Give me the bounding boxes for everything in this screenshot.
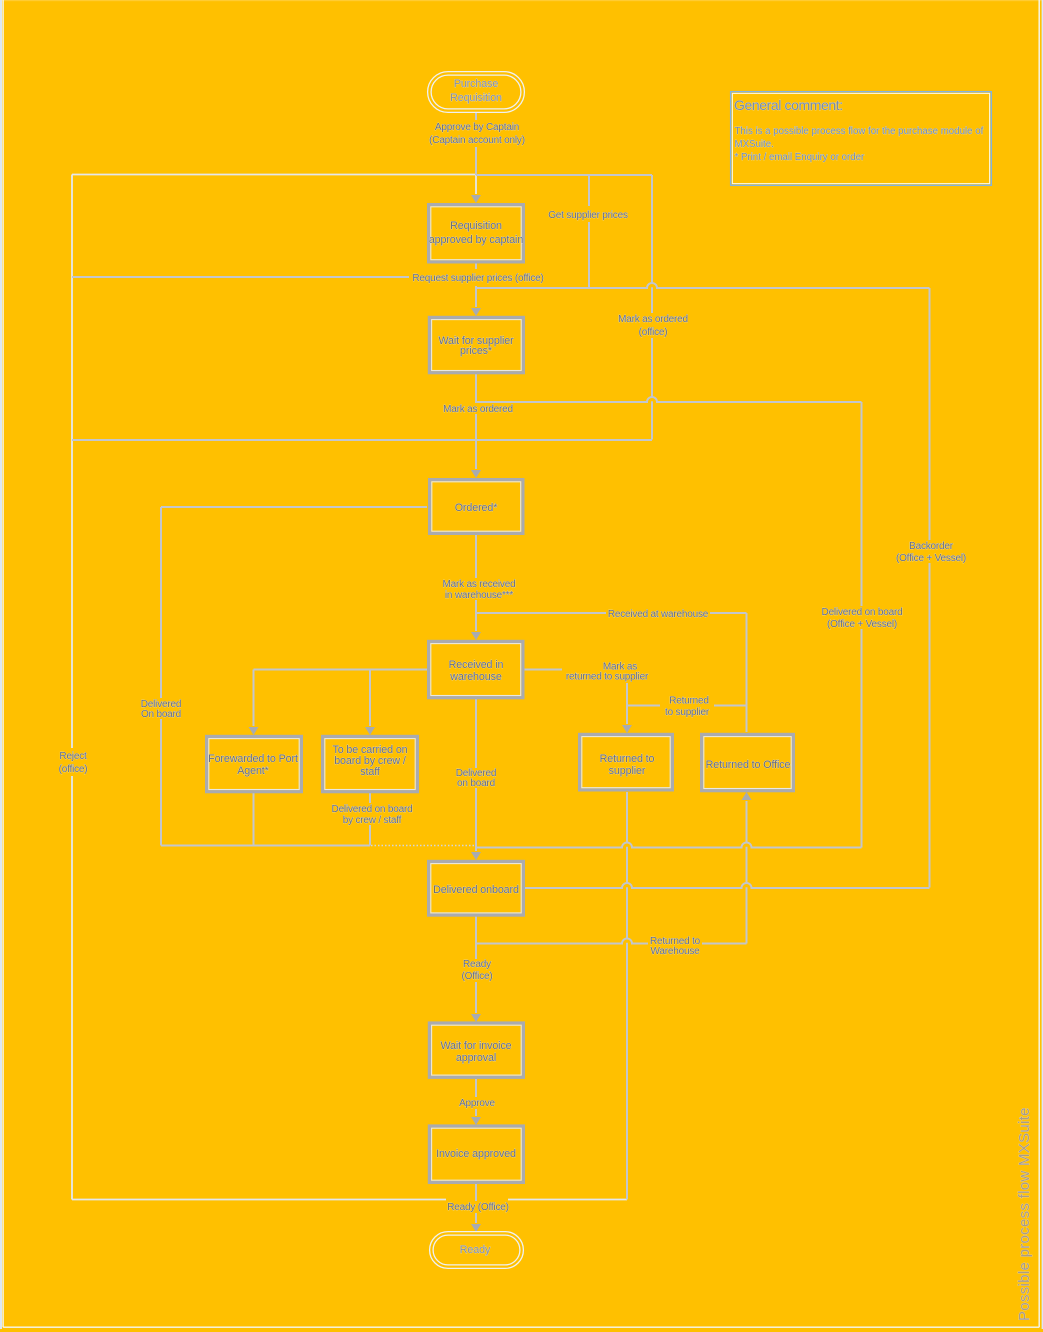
svg-text:in warehouse***: in warehouse***	[445, 590, 513, 601]
wire delivered-on-board-left vertical x=161	[160, 507, 162, 846]
svg-text:(Office + Vessel): (Office + Vessel)	[896, 553, 966, 564]
svg-text:Delivered on board: Delivered on board	[332, 804, 413, 815]
box invoice-approved	[429, 1126, 523, 1182]
wire delivered-on-board-office vertical x=862	[861, 402, 863, 848]
wire delivered-collect horizontal y=846 right with hops	[477, 843, 862, 848]
svg-text:(Office + Vessel): (Office + Vessel)	[827, 619, 897, 630]
svg-text:Get supplier prices: Get supplier prices	[548, 210, 628, 221]
wire mark-as-ordered-office vertical x=652	[651, 175, 653, 440]
svg-text:Forewarded to Port: Forewarded to Port	[208, 753, 298, 765]
svg-text:Warehouse: Warehouse	[651, 946, 701, 957]
hop mask at 747,888	[741, 882, 751, 887]
wire mark-as-ordered branch horizontal y=402 with hop at 652	[476, 397, 862, 402]
arrow into delivered-onboard	[471, 852, 481, 860]
svg-text:Mark as received: Mark as received	[443, 579, 516, 590]
hop mask at 627,888	[622, 882, 632, 887]
svg-text:on board: on board	[457, 778, 495, 789]
comment text	[734, 97, 984, 163]
svg-text:Approve: Approve	[459, 1098, 495, 1109]
svg-text:to supplier: to supplier	[665, 707, 710, 718]
svg-text:by crew / staff: by crew / staff	[343, 815, 402, 826]
stadium purchase-requisition	[428, 72, 525, 113]
svg-text:Approve by Captain: Approve by Captain	[435, 122, 519, 133]
text purchase-requisition	[450, 78, 502, 104]
hop mask at 627,943.5	[622, 938, 632, 943]
wire mark-returned-supplier horizontal y=669.5	[524, 669, 562, 671]
svg-text:Request supplier prices (offic: Request supplier prices (office)	[412, 273, 543, 284]
box wait-for-supplier-prices	[429, 317, 523, 372]
svg-text:Delivered on board: Delivered on board	[822, 607, 903, 618]
wire backorder horizontal y=288 with hop at 652	[477, 283, 930, 288]
wire ordered-left horizontal y=507	[161, 506, 427, 508]
svg-text:(Captain account only): (Captain account only)	[429, 135, 525, 146]
box ordered	[430, 480, 523, 534]
wire request-supplier-prices horizontal y=277	[72, 276, 409, 278]
wire requisition-to-wait vertical x=476	[475, 263, 477, 307]
wire top loop horizontal y=175 right part	[476, 174, 652, 176]
svg-text:Backorder: Backorder	[909, 541, 954, 552]
svg-text:Reject: Reject	[59, 751, 87, 762]
arrow into ready	[471, 1224, 481, 1232]
wire returned-to-supplier branch horizontal y=705.5	[627, 705, 747, 707]
arrow into ordered	[471, 470, 481, 478]
svg-text:Requisition: Requisition	[450, 92, 502, 104]
arrow into received-in-warehouse	[471, 632, 481, 640]
svg-text:On board: On board	[141, 709, 181, 720]
svg-text:Invoice approved: Invoice approved	[436, 1148, 516, 1160]
wire delivered-to-wait-invoice vertical x=476	[475, 917, 477, 1014]
svg-text:(Office): (Office)	[462, 971, 493, 982]
wire returned-supplier vertical x=627	[626, 683, 628, 724]
comment general-comment box	[731, 92, 992, 186]
svg-text:warehouse: warehouse	[449, 671, 502, 683]
text general-comment-body	[735, 126, 984, 163]
svg-text:Received in: Received in	[449, 659, 504, 671]
stadium ready-end	[430, 1232, 524, 1269]
svg-text:* Print / email Enquiry or ord: * Print / email Enquiry or order	[735, 152, 866, 163]
wire loop down into arrow x=476	[475, 175, 477, 195]
svg-text:Returned to Office: Returned to Office	[706, 759, 791, 771]
wire to-port-agent vertical x=253.5	[253, 670, 255, 727]
svg-text:Ready: Ready	[460, 1244, 491, 1256]
wire received-to-delivered vertical x=476	[475, 699, 477, 851]
wire invoice-to-ready vertical x=476	[475, 1184, 477, 1224]
wire returned-supplier-down vertical x=627	[626, 792, 628, 1200]
wire received-left horizontal y=669	[254, 669, 428, 671]
wire to-carried vertical x=370	[369, 670, 371, 727]
wire backorder-into-delivered horizontal y=888 with hops	[525, 883, 930, 888]
box returned-to-office	[702, 734, 794, 790]
wire get-supplier-prices vertical x=589	[588, 175, 590, 288]
wire delivered-collect horizontal y=846 left	[161, 845, 370, 847]
svg-text:Ready (Office): Ready (Office)	[447, 1202, 508, 1213]
wire dashed crew-staff to delivered y=846	[371, 845, 474, 847]
wire ordered-to-received vertical x=476	[475, 535, 477, 631]
box delivered-onboard	[429, 861, 524, 915]
svg-text:Returned: Returned	[669, 696, 709, 707]
svg-text:Delivered onboard: Delivered onboard	[433, 884, 519, 896]
svg-text:Wait for invoice: Wait for invoice	[440, 1040, 511, 1052]
box wait-for-invoice-approval	[429, 1023, 523, 1077]
svg-text:Returned to: Returned to	[600, 753, 655, 765]
svg-text:Requisition: Requisition	[450, 220, 502, 232]
box to-be-carried-on-board	[323, 736, 418, 791]
svg-text:General comment:: General comment:	[734, 97, 843, 113]
svg-text:prices*: prices*	[460, 345, 492, 357]
svg-text:returned to supplier: returned to supplier	[566, 672, 649, 683]
wire wait-to-ordered vertical x=476	[475, 374, 477, 469]
svg-text:Ordered*: Ordered*	[455, 502, 498, 514]
hop mask at 652,288	[647, 282, 657, 287]
wire returned-office-top vertical x=747	[746, 613, 748, 732]
svg-text:Possible process flow MXSuite: Possible process flow MXSuite	[1016, 1107, 1033, 1321]
arrow into requisition-approved	[471, 195, 481, 203]
svg-text:Agent*: Agent*	[237, 765, 269, 777]
wire start-to-requisition vertical x=476	[475, 113, 477, 175]
hop mask at 652,402	[647, 396, 657, 401]
wire ready-office horizontal y=1200	[72, 1199, 627, 1201]
svg-text:Received at warehouse: Received at warehouse	[608, 609, 709, 620]
arrow into returned-office bottom (up)	[742, 792, 752, 800]
text ready-end	[460, 1244, 491, 1256]
box returned-to-supplier	[580, 734, 673, 790]
wire received-at-warehouse horizontal y=613	[477, 612, 747, 614]
svg-text:Mark as ordered: Mark as ordered	[443, 404, 513, 415]
arrow into invoice-approved	[471, 1117, 481, 1125]
wire mark-as-ordered horizontal y=440	[72, 439, 652, 441]
svg-text:staff: staff	[360, 766, 380, 778]
box forewarded-to-port-agent	[207, 736, 302, 791]
wire reject loop vertical x=72	[71, 175, 73, 1200]
wire returned-office-bottom vertical x=747	[746, 801, 748, 944]
wire carried-bottom vertical x=370	[369, 793, 371, 846]
arrow into to-be-carried	[365, 727, 375, 735]
svg-text:(office): (office)	[59, 764, 88, 775]
box requisition-approved-by-captain	[429, 205, 524, 262]
svg-text:This is a possible process flo: This is a possible process flow for the …	[735, 126, 984, 137]
svg-text:Mark as ordered: Mark as ordered	[618, 314, 688, 325]
svg-text:supplier: supplier	[609, 765, 646, 777]
svg-text:MXSuite.: MXSuite.	[735, 139, 774, 150]
box received-in-warehouse	[429, 641, 523, 697]
wire wait-invoice-to-approved vertical x=476	[475, 1079, 477, 1116]
wire port-agent-bottom vertical x=253.5	[253, 793, 255, 846]
wire returned-to-warehouse horizontal y=944 with hop	[476, 939, 747, 944]
wire backorder vertical x=930	[929, 288, 931, 888]
arrow into returned-supplier	[622, 725, 632, 733]
svg-text:(office): (office)	[639, 327, 668, 338]
page outer pale edges	[0, 0, 1043, 1]
svg-text:Purchase: Purchase	[454, 78, 499, 90]
hop mask at 747,847.5	[741, 842, 751, 847]
svg-text:approval: approval	[456, 1052, 496, 1064]
arrow into wait-invoice	[471, 1014, 481, 1022]
hop mask at 627,847.5	[622, 842, 632, 847]
arrow into wait-for-supplier	[471, 308, 481, 316]
wire top loop horizontal y=174.5	[72, 174, 476, 176]
svg-text:approved by captain: approved by captain	[429, 234, 524, 246]
svg-text:Ready: Ready	[463, 959, 491, 970]
arrow into port-agent	[249, 727, 259, 735]
